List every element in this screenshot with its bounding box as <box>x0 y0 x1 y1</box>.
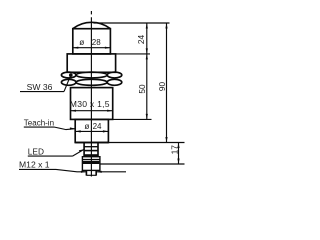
svg-text:17: 17 <box>170 145 180 155</box>
svg-text:Teach-in: Teach-in <box>24 118 54 127</box>
connector upper section left edge <box>83 143 85 157</box>
M12 thread tip end face <box>86 174 96 176</box>
svg-text:SW 36: SW 36 <box>27 82 53 92</box>
dimension M30 x 1,5 (barrel thread) <box>70 99 113 112</box>
label Teach-in with leader arrow <box>24 118 76 130</box>
dimension ø 28 (head diameter) <box>73 37 111 49</box>
svg-text:ø: ø <box>79 37 84 47</box>
extension line at housing bottom flange <box>107 142 185 144</box>
hex nut SW36 lower row left facet <box>61 79 76 85</box>
dimension 24 (head height) <box>136 23 148 54</box>
svg-text:24: 24 <box>93 122 102 131</box>
hex nut SW36 upper row left facet <box>61 72 76 78</box>
svg-text:ø: ø <box>84 121 89 131</box>
hex nut SW36 upper row right facet <box>107 72 122 78</box>
dimension M12 x 1 (connector thread) with label leader <box>19 160 126 173</box>
hex nut SW36 lower row centre facet <box>76 79 107 85</box>
shoulder step line at housing bottom <box>75 142 108 144</box>
connector groove line 2 <box>84 150 98 152</box>
svg-text:28: 28 <box>92 38 101 47</box>
extension line at connector flange bottom <box>100 163 185 165</box>
sensing face dome <box>73 22 111 28</box>
svg-text:24: 24 <box>136 35 146 45</box>
connector groove line 1 (LED ring) <box>84 146 98 148</box>
M12 thread stub left edge <box>85 170 87 175</box>
dimension 90 (body length) <box>157 23 168 143</box>
extension line from barrel bottom shoulder <box>113 118 152 120</box>
connector upper section right edge <box>97 143 99 157</box>
connector dark ring 1 <box>84 154 98 157</box>
vertical centerline axis <box>90 11 92 177</box>
svg-text:M30 x 1,5: M30 x 1,5 <box>70 99 110 109</box>
M30 threaded barrel body <box>71 88 113 120</box>
extension line from dome apex <box>94 22 170 24</box>
dimension 50 (thread length) <box>137 54 148 120</box>
ø24 lower housing <box>75 119 108 142</box>
hex nut SW36 lower row right facet <box>107 79 122 85</box>
dimension ø 24 (housing diameter) <box>75 121 108 133</box>
svg-text:LED: LED <box>28 147 44 157</box>
connector flange groove line <box>82 159 100 161</box>
connector hex flange box <box>82 157 100 171</box>
label LED with leader arrow <box>28 147 85 157</box>
M12 thread stub right edge <box>95 170 97 175</box>
svg-text:50: 50 <box>137 84 147 94</box>
dimension 17 (connector length) <box>170 143 180 165</box>
sensor head body ø28 <box>73 29 111 54</box>
collar section below head <box>67 54 115 72</box>
connector dark ring 3 <box>83 161 100 164</box>
svg-text:M12 x 1: M12 x 1 <box>19 160 50 170</box>
extension line from collar top shoulder <box>116 53 150 55</box>
svg-text:90: 90 <box>157 82 167 92</box>
label SW 36 (wrench size) with leader and dot <box>20 73 73 92</box>
hex nut SW36 upper row centre facet <box>76 72 107 78</box>
